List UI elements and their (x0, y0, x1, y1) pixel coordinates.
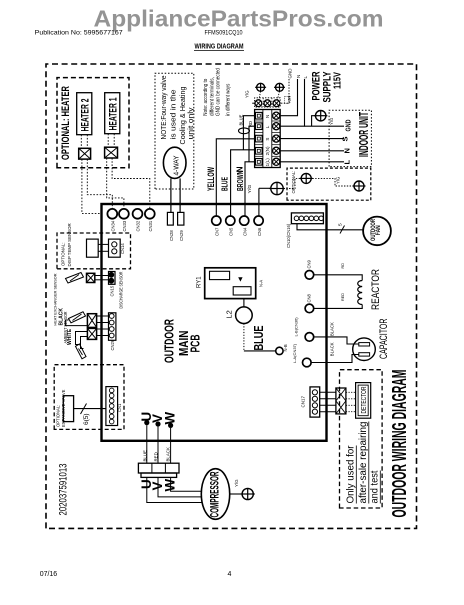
svg-text:FFMS091CQ10: FFMS091CQ10 (205, 30, 243, 37)
wires to CN15 (95, 275, 109, 277)
svg-text:L: L (343, 160, 352, 165)
heater 2 plug connector (79, 148, 91, 159)
four-way valve coil 4-WAY (163, 147, 186, 178)
wire yellow S to CN7 (216, 139, 254, 216)
wire brown 1L to CN4 (245, 162, 255, 216)
svg-text:S: S (265, 138, 270, 141)
svg-text:CN1: CN1 (117, 403, 122, 412)
ambient sensor wires (76, 332, 88, 345)
wires plugs to CN26 (97, 315, 109, 317)
heat exchanger sensor loop wire (65, 320, 87, 326)
connector CN1 (106, 387, 118, 426)
svg-text:CN10(CN16): CN10(CN16) (286, 223, 291, 248)
svg-text:GND can be connected: GND can be connected (216, 68, 222, 116)
connector CN9 (305, 270, 314, 279)
svg-text:unit only: unit only (186, 107, 195, 139)
svg-text:Note: according to: Note: according to (203, 79, 209, 116)
optional earth screw 2 (354, 181, 364, 191)
power terminal block (255, 110, 281, 168)
wires CN17 to detector transformer (320, 391, 336, 393)
svg-text:GND: GND (288, 68, 293, 79)
after-sale service dashed box (340, 370, 383, 508)
wires sensor to CN14 (98, 243, 108, 245)
svg-text:BLACK: BLACK (330, 322, 335, 336)
svg-text:COMPRESSOR: COMPRESSOR (210, 471, 222, 517)
svg-text:OPTIONAL:: OPTIONAL: (61, 243, 66, 266)
connector CN14 (109, 239, 121, 257)
dotted wires to detector (346, 391, 356, 393)
inductor L2 (243, 299, 245, 307)
connector L-B(CN36) (305, 333, 314, 342)
svg-text:different terminals,: different terminals, (209, 77, 215, 116)
svg-text:L-B(CN36): L-B(CN36) (294, 317, 299, 337)
earth screw above bar GN (276, 83, 284, 91)
svg-text:RD: RD (248, 121, 253, 127)
terminal block ground bar (255, 98, 281, 107)
optional earth screw 1 (301, 173, 311, 183)
svg-text:Y/G: Y/G (234, 479, 239, 487)
svg-text:HEATER 2: HEATER 2 (80, 99, 92, 132)
svg-text:CN28: CN28 (169, 230, 174, 241)
svg-text:2(N): 2(N) (265, 146, 270, 155)
svg-text:OPTIONAL:: OPTIONAL: (56, 405, 61, 427)
terminal row dividers (255, 120, 263, 122)
svg-text:202037591013: 202037591013 (57, 464, 69, 516)
terminal V (155, 421, 160, 426)
power supply wire L (280, 79, 305, 126)
svg-text:Y/G: Y/G (245, 90, 250, 98)
svg-text:1(L): 1(L) (265, 158, 270, 167)
svg-text:N: N (343, 148, 352, 153)
quick connect terminals (256, 112, 263, 119)
svg-text:WHITE: WHITE (67, 328, 73, 345)
svg-text:115V: 115V (333, 72, 344, 89)
heater H1 box (105, 93, 120, 134)
svg-text:CN5: CN5 (229, 227, 234, 236)
svg-text:DISP TEMP SENSOR: DISP TEMP SENSOR (67, 223, 72, 266)
heat exchanger plug lower (87, 328, 96, 339)
svg-text:REACTOR: REACTOR (370, 269, 382, 310)
svg-text:N-B: N-B (283, 344, 288, 351)
svg-text:4-WAY: 4-WAY (173, 155, 180, 175)
ambient sensor thermistor (76, 344, 87, 359)
heater 1 plug connector (105, 147, 118, 158)
connector CN7 (212, 216, 221, 225)
connector CN26 (109, 313, 116, 341)
svg-text:after-sale repairing: after-sale repairing (357, 421, 369, 503)
outdoor main PCB box (102, 204, 327, 441)
svg-text:NOTE:Four-way valve: NOTE:Four-way valve (159, 76, 168, 140)
relay RY1 box (205, 268, 256, 299)
indoor unit wires (305, 125, 345, 127)
ground bar screw 2 (264, 100, 271, 107)
svg-text:CAPACITOR: CAPACITOR (378, 319, 390, 360)
svg-text:Y/G: Y/G (247, 184, 252, 194)
power cord wire L red (249, 126, 255, 162)
ground bar screw 3 (273, 100, 280, 107)
svg-text:07/16: 07/16 (40, 571, 58, 578)
svg-text:Y/G: Y/G (336, 176, 341, 184)
outer dashed border of wiring diagram (46, 64, 417, 528)
optional ground dotted wires (284, 178, 301, 188)
note box four-way valve (155, 73, 194, 189)
disp temp sensor (87, 239, 99, 257)
svg-text:N: N (296, 75, 301, 78)
svg-text:OPTIONAL: HEATER: OPTIONAL: HEATER (60, 86, 72, 160)
wire to outdoor fan with 5 conductors (297, 224, 363, 230)
svg-text:CN8: CN8 (307, 293, 312, 302)
svg-text:W: W (163, 412, 178, 425)
svg-text:Y/G: Y/G (329, 117, 334, 125)
capacitor (353, 338, 376, 361)
svg-text:CN4: CN4 (242, 227, 247, 236)
connector CN17 (310, 387, 320, 417)
svg-text:OUTDOOR WIRING DIAGRAM: OUTDOOR WIRING DIAGRAM (389, 370, 411, 518)
connector CN15 (109, 272, 116, 285)
reactor wires red (314, 275, 363, 281)
optional expansive valve dashed box (54, 365, 124, 430)
compressor earth screw (242, 488, 253, 499)
connector CN8 (305, 304, 314, 313)
svg-text:CN15: CN15 (110, 285, 115, 296)
connector CN6 (254, 216, 263, 225)
svg-text:HEATER 1: HEATER 1 (108, 98, 120, 131)
connector L-A(CN37) (303, 358, 312, 367)
svg-text:CN29: CN29 (179, 230, 184, 241)
wire heater1 to CN31 (112, 158, 150, 209)
terminal U (144, 420, 149, 425)
svg-text:CN34: CN34 (111, 220, 116, 231)
svg-text:GND: GND (344, 119, 353, 131)
connector CN32 (133, 209, 143, 219)
svg-text:L: L (265, 125, 270, 128)
svg-text:RED: RED (154, 452, 159, 461)
cord grommet (239, 128, 250, 134)
svg-text:Only used for: Only used for (345, 445, 357, 503)
svg-text:5: 5 (338, 223, 344, 226)
relay arrow (238, 277, 242, 281)
connector N-B (276, 347, 283, 354)
connector CN28 (167, 212, 173, 225)
wires 4-way valve to CN28 CN29 (170, 178, 172, 212)
optional ground dashed box (287, 168, 371, 200)
heater 1 leads dotted (107, 134, 109, 148)
capacitor wires black (314, 337, 359, 344)
connector CN34 (107, 209, 117, 219)
compressor motor (201, 469, 229, 520)
wire L2 to N-B blue (243, 324, 245, 351)
connector CN4 (240, 216, 249, 225)
compressor ground wire (230, 493, 242, 495)
svg-text:CN6: CN6 (257, 227, 262, 236)
power supply wire GND (281, 79, 289, 103)
svg-text:N: N (265, 115, 270, 118)
svg-text:Publication No: 5995677167: Publication No: 5995677167 (35, 30, 123, 37)
heater H2 box (77, 93, 92, 135)
svg-text:is used in the: is used in the (169, 90, 178, 140)
screw terminals (273, 112, 280, 119)
svg-text:CN32: CN32 (136, 220, 141, 231)
outdoor fan motor (363, 217, 391, 246)
svg-text:BLACK: BLACK (166, 447, 171, 461)
svg-text:WIRING DIAGRAM: WIRING DIAGRAM (195, 41, 244, 50)
earth screw terminal Y/G (271, 182, 283, 194)
svg-text:CN33: CN33 (122, 220, 127, 231)
connector CN31 (145, 209, 155, 219)
wire heater2 to CN34 (87, 159, 112, 209)
svg-text:HEAT EXCHANGER SENSOR: HEAT EXCHANGER SENSOR (52, 273, 57, 325)
svg-text:INDOOR UNIT: INDOOR UNIT (356, 112, 371, 157)
svg-text:N: N (236, 166, 245, 172)
svg-text:CN7: CN7 (215, 227, 220, 236)
svg-text:BROWN: BROWN (236, 170, 245, 191)
wire yellow-green to CN6 and earth screw (258, 188, 260, 216)
svg-text:BLUE: BLUE (142, 450, 147, 462)
wire heater1 to CN33 (107, 158, 124, 209)
connector CN33 (119, 209, 129, 219)
svg-text:S: S (341, 136, 350, 141)
svg-text:RD: RD (341, 263, 345, 269)
svg-text:YELLOW: YELLOW (206, 167, 216, 191)
wires plug to compressor (147, 477, 202, 502)
svg-text:CN26: CN26 (110, 339, 115, 350)
svg-text:BLACK: BLACK (330, 342, 335, 356)
expansive valve coil (63, 396, 73, 422)
discharge sensor thermistor (66, 273, 84, 284)
optional disp temp sensor dashed box (57, 233, 131, 269)
heater 2 leads dotted (80, 135, 82, 149)
wires U V W to plug (146, 425, 148, 463)
svg-text:DISCHARGE SENSOR: DISCHARGE SENSOR (119, 272, 124, 309)
svg-text:L2: L2 (225, 310, 234, 318)
detector box (356, 383, 371, 419)
connector CN29 (178, 212, 184, 225)
svg-text:6(5): 6(5) (83, 413, 90, 425)
svg-text:L-A(CN37): L-A(CN37) (292, 343, 297, 363)
heat exchanger thermistor (69, 312, 86, 323)
terminal W (168, 423, 173, 428)
svg-text:AppliancePartsPros.com: AppliancePartsPros.com (94, 6, 384, 32)
connector CN5 (226, 216, 235, 225)
power cord wire N blue (243, 116, 254, 150)
wire blue 2N to CN5 (231, 150, 255, 216)
svg-text:N-A: N-A (259, 280, 264, 287)
ground bar screw 1 (255, 100, 262, 107)
wire heater2 to PCB edge (82, 159, 102, 213)
svg-text:FAN: FAN (376, 225, 382, 235)
svg-text:OUTDOOR: OUTDOOR (162, 319, 177, 363)
heat exchanger plug upper (87, 314, 96, 328)
svg-text:in different ways: in different ways (226, 83, 232, 115)
detector transformer (336, 388, 346, 414)
svg-text:CN17: CN17 (301, 395, 306, 407)
indoor unit dotted box (329, 110, 371, 166)
svg-text:RED: RED (341, 293, 345, 301)
svg-text:4: 4 (228, 571, 232, 578)
earth screw above bar Y/G (257, 83, 265, 91)
svg-text:RY1: RY1 (197, 276, 203, 288)
svg-text:BLUE: BLUE (239, 114, 244, 125)
svg-text:and test: and test (369, 470, 381, 503)
svg-text:PCB: PCB (188, 335, 203, 353)
connector CN10(CN16) (291, 213, 323, 224)
svg-text:L: L (303, 76, 308, 79)
compressor plug (138, 463, 179, 473)
discharge sensor plug (87, 273, 95, 282)
svg-text:DETECTOR: DETECTOR (359, 386, 368, 413)
reactor coil (358, 281, 363, 305)
wire valve to CN1 6(5) conductors (74, 408, 106, 410)
power supply wire N (280, 79, 298, 116)
svg-text:CN31: CN31 (148, 220, 153, 231)
optional heater dashed box (57, 78, 129, 168)
svg-text:CN14: CN14 (120, 243, 125, 254)
svg-text:CN9: CN9 (307, 259, 312, 268)
svg-text:BLUE: BLUE (251, 325, 266, 350)
svg-text:BLUE: BLUE (221, 177, 230, 191)
indoor earth screw (312, 116, 316, 127)
